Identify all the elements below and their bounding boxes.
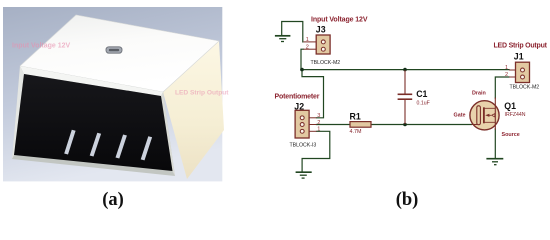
svg-text:R1: R1: [350, 111, 361, 121]
enclosure front frame: [12, 66, 175, 176]
svg-text:J3: J3: [316, 25, 326, 35]
svg-text:2: 2: [306, 44, 309, 50]
svg-text:4.7M: 4.7M: [350, 129, 362, 135]
connector J2: [295, 110, 316, 138]
svg-text:Source: Source: [502, 132, 520, 138]
slot 3: [116, 135, 127, 159]
capacitor C1: [398, 70, 413, 124]
junction node gate wire/C1: [403, 123, 407, 127]
svg-text:Q1: Q1: [504, 101, 516, 111]
ground bottom-right: [486, 159, 503, 165]
wire rail branch to J2 pin3: [302, 70, 324, 118]
wire J2 pin2 to R1: [317, 124, 351, 126]
svg-text:C1: C1: [416, 89, 427, 99]
slot 1: [64, 130, 75, 155]
connector J3: [304, 35, 331, 54]
svg-text:2: 2: [505, 72, 508, 78]
svg-text:3: 3: [317, 113, 320, 119]
junction node rail/C1: [403, 68, 407, 72]
svg-text:J1: J1: [514, 52, 524, 62]
svg-text:(a): (a): [102, 190, 124, 210]
svg-text:Gate: Gate: [454, 113, 466, 119]
enclosure top face: [20, 15, 219, 92]
svg-text:LED Strip Output: LED Strip Output: [494, 43, 548, 50]
wire R1 to Q1 gate: [371, 124, 472, 126]
svg-text:1: 1: [505, 65, 508, 71]
svg-text:Input Voltage 12V: Input Voltage 12V: [311, 17, 368, 24]
enclosure right side face: [163, 41, 224, 179]
front frame top white strip: [20, 66, 163, 96]
front frame left strip: [12, 66, 24, 159]
svg-text:TBLOCK-M2: TBLOCK-M2: [311, 60, 341, 66]
slot 4: [141, 136, 152, 160]
front black panel: [14, 74, 173, 171]
svg-text:0.1uF: 0.1uF: [417, 100, 430, 106]
wire Q1 source to ground-BR: [494, 129, 496, 158]
svg-text:IRFZ44N: IRFZ44N: [505, 112, 526, 118]
svg-text:2: 2: [317, 120, 320, 126]
MOSFET Q1: [470, 98, 499, 130]
svg-text:TBLOCK-M2: TBLOCK-M2: [510, 84, 540, 90]
front frame right strip: [161, 92, 175, 176]
ground bottom-left: [296, 172, 312, 178]
svg-text:1: 1: [306, 37, 309, 43]
wire J2 pin1 to ground-BL: [302, 131, 330, 172]
wire +12V rail: [301, 69, 509, 71]
svg-text:(b): (b): [396, 190, 419, 210]
resistor R1: [350, 122, 371, 128]
connector J1: [509, 62, 530, 82]
panel (a) photo background: [3, 7, 222, 181]
svg-text:LED Strip Output: LED Strip Output: [175, 90, 229, 97]
svg-text:J2: J2: [294, 102, 304, 112]
svg-text:Potentiometer: Potentiometer: [275, 94, 320, 101]
wire ground-TL to J3 pin1: [282, 22, 303, 42]
svg-text:Input Voltage 12V: Input Voltage 12V: [12, 43, 71, 50]
wire J1 pin2 down to Q1 drain: [495, 77, 509, 98]
junction node rail/J3/J2: [300, 68, 304, 72]
wire J3 pin2 down to +12V rail: [301, 49, 304, 69]
top connector cutout: [106, 47, 122, 53]
svg-text:1: 1: [317, 127, 320, 133]
svg-text:Drain: Drain: [472, 91, 486, 97]
slot 2: [90, 133, 101, 157]
ground top-left: [275, 36, 291, 42]
svg-text:TBLOCK-I3: TBLOCK-I3: [290, 143, 317, 149]
